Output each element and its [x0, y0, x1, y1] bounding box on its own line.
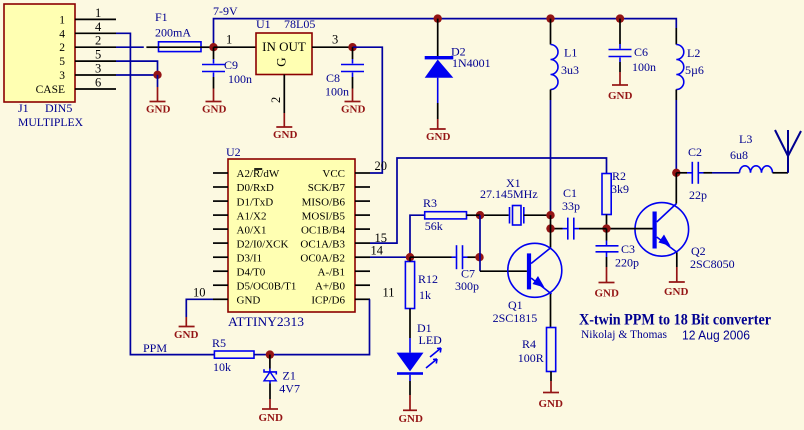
svg-text:A-/B1: A-/B1 — [318, 266, 346, 278]
svg-text:U2: U2 — [226, 145, 241, 159]
svg-text:GND: GND — [174, 329, 199, 341]
ground C8 — [341, 89, 366, 116]
junction C6 on rail — [616, 14, 624, 22]
crystal X1 — [480, 176, 551, 225]
svg-text:MULTIPLEX: MULTIPLEX — [18, 115, 83, 129]
ground R4 — [539, 381, 564, 410]
svg-text:22p: 22p — [689, 188, 707, 202]
svg-text:IN OUT: IN OUT — [262, 39, 306, 54]
svg-text:ICP/D6: ICP/D6 — [311, 295, 345, 307]
wire collector node down to Q1 — [550, 215, 552, 247]
wire L1 to X1 node — [550, 100, 552, 215]
regulator U1 78L05 — [256, 17, 315, 75]
wire fuse to junction — [201, 46, 214, 48]
diode D2 1N4001 — [425, 19, 491, 119]
svg-text:D0/RxD: D0/RxD — [237, 182, 274, 194]
svg-text:OC1B/B4: OC1B/B4 — [301, 224, 346, 236]
svg-text:ATTINY2313: ATTINY2313 — [228, 314, 304, 329]
U2 left pin names — [237, 168, 297, 306]
U1 pin2 wire down — [283, 75, 285, 114]
ground Q2 emitter — [664, 267, 689, 298]
junction X1 right / Q1 collector — [546, 211, 554, 219]
svg-text:R3: R3 — [423, 196, 437, 210]
svg-text:7-9V: 7-9V — [213, 4, 238, 18]
wire L2 down to C2/Q2 node — [675, 100, 677, 173]
svg-text:R4: R4 — [522, 337, 536, 351]
svg-text:GND: GND — [608, 90, 633, 102]
svg-text:C2: C2 — [688, 145, 702, 159]
node 7-9V rail — [214, 19, 677, 48]
svg-text:300p: 300p — [455, 279, 479, 293]
svg-text:F1: F1 — [155, 10, 168, 24]
svg-text:MISO/B6: MISO/B6 — [302, 196, 346, 208]
svg-text:SCK/B7: SCK/B7 — [308, 182, 346, 194]
capacitor C7 — [410, 245, 480, 293]
svg-text:Nikolaj & Thomas: Nikolaj & Thomas — [581, 327, 667, 341]
chip U2 ATTINY2313 — [226, 145, 355, 329]
U2 right pin names — [300, 168, 345, 306]
svg-text:C9: C9 — [224, 58, 238, 72]
LED D1 — [397, 321, 443, 395]
transistor Q2 2SC8050 — [607, 173, 735, 271]
node pin15 to R2 — [370, 158, 607, 243]
capacitor C1 — [551, 186, 607, 240]
svg-text:100n: 100n — [228, 72, 252, 86]
ground C3 — [595, 267, 620, 300]
ground C6 — [608, 72, 633, 102]
svg-text:GND: GND — [273, 129, 298, 141]
svg-text:3: 3 — [332, 33, 338, 47]
wire segment to fuse F1 — [146, 46, 158, 48]
inductor L1 — [551, 19, 580, 100]
ground D1 — [399, 395, 424, 425]
svg-text:200mA: 200mA — [155, 26, 191, 40]
svg-text:A+/B0: A+/B0 — [315, 280, 346, 292]
ground Z1 — [259, 399, 284, 424]
wire C7 node up to X1 node and down to Q1 base — [479, 215, 481, 271]
svg-text:C1: C1 — [563, 186, 577, 200]
svg-text:GND: GND — [426, 131, 451, 143]
svg-text:OC1A/B3: OC1A/B3 — [300, 238, 345, 250]
ground D2 — [426, 119, 451, 143]
svg-text:1: 1 — [95, 6, 101, 20]
svg-text:5: 5 — [95, 48, 101, 62]
svg-text:C8: C8 — [326, 71, 340, 85]
resistor R2 — [602, 169, 629, 229]
svg-text:MOSI/B5: MOSI/B5 — [302, 210, 346, 222]
ground C9 — [202, 89, 227, 116]
svg-text:4: 4 — [59, 28, 65, 40]
svg-text:D5/OC0B/T1: D5/OC0B/T1 — [237, 280, 297, 292]
capacitor C8 — [325, 47, 364, 98]
junction J1 gnd — [153, 71, 161, 79]
svg-text:A0/X1: A0/X1 — [237, 224, 267, 236]
svg-text:VCC: VCC — [322, 168, 345, 180]
node +5V to U2 VCC — [353, 47, 383, 173]
svg-text:PPM: PPM — [143, 341, 167, 355]
svg-text:GND: GND — [539, 398, 564, 410]
junction U1 out / C8 — [348, 43, 356, 51]
svg-text:100n: 100n — [325, 85, 349, 99]
wire C2 to L3 — [712, 172, 740, 174]
svg-text:Q2: Q2 — [691, 244, 706, 258]
transistor Q1 2SC1815 — [493, 243, 562, 327]
resistor R4 — [518, 328, 556, 382]
svg-text:1N4001: 1N4001 — [452, 56, 491, 70]
svg-text:GND: GND — [202, 104, 227, 116]
resistor R12 — [405, 257, 438, 352]
wire L3 to antenna — [773, 172, 789, 174]
svg-text:G: G — [274, 57, 289, 66]
ground U2 pin10 — [174, 317, 199, 341]
svg-text:27.145MHz: 27.145MHz — [480, 187, 538, 201]
ground U1 — [273, 113, 298, 141]
resistor R3 — [410, 196, 480, 257]
node pin11 to PPM — [270, 299, 370, 354]
wire J1 pin2 toward fuse — [116, 46, 144, 48]
J1 pin numbers — [95, 6, 102, 90]
svg-text:R12: R12 — [418, 272, 438, 286]
inductor L2 — [676, 28, 704, 100]
junction X1 left — [476, 211, 484, 219]
J1 pin stubs — [75, 19, 116, 89]
capacitor C9 — [202, 47, 252, 88]
connector J1 — [4, 4, 75, 102]
node PPM : wire from J1 pin4 down and across — [116, 33, 214, 354]
junction R3/R12/C7 — [406, 253, 414, 261]
junction R5/Z1 — [266, 350, 274, 358]
svg-text:3u3: 3u3 — [561, 63, 579, 77]
svg-text:D2/I0/XCK: D2/I0/XCK — [237, 238, 289, 250]
ground J1 — [146, 75, 171, 116]
wire junction to U1 — [214, 46, 257, 48]
capacitor C6 — [609, 19, 657, 74]
svg-text:2SC8050: 2SC8050 — [690, 257, 735, 271]
junction L1 on rail — [546, 14, 554, 22]
svg-text:C3: C3 — [621, 242, 635, 256]
svg-text:X-twin PPM to 18 Bit converter: X-twin PPM to 18 Bit converter — [579, 312, 771, 329]
U2 left pin stubs — [213, 173, 228, 299]
svg-text:CASE: CASE — [36, 84, 65, 96]
svg-text:100R: 100R — [518, 351, 544, 365]
svg-text:6: 6 — [95, 76, 101, 90]
svg-text:U1: U1 — [256, 17, 271, 31]
antenna — [775, 130, 801, 173]
svg-text:2: 2 — [59, 42, 65, 54]
svg-text:GND: GND — [664, 286, 689, 298]
svg-text:3: 3 — [95, 62, 101, 76]
svg-text:14: 14 — [371, 244, 384, 258]
svg-text:GND: GND — [341, 104, 366, 116]
svg-text:GND: GND — [146, 104, 171, 116]
zener Z1 — [264, 355, 300, 399]
node pin14 wire — [370, 256, 410, 258]
svg-text:J1: J1 — [18, 101, 29, 115]
svg-text:2: 2 — [269, 97, 283, 103]
svg-text:4V7: 4V7 — [279, 382, 300, 396]
svg-text:D3/I1: D3/I1 — [237, 252, 263, 264]
svg-text:L2: L2 — [687, 46, 700, 60]
svg-text:4: 4 — [95, 20, 102, 34]
svg-text:5µ6: 5µ6 — [685, 63, 704, 77]
svg-text:6u8: 6u8 — [730, 148, 748, 162]
svg-text:GND: GND — [259, 412, 284, 424]
overline on R of A2/R/dW — [254, 168, 262, 170]
junction at F1/C9/U1 — [209, 43, 217, 51]
svg-text:3k9: 3k9 — [611, 182, 629, 196]
svg-text:1: 1 — [226, 33, 232, 47]
svg-text:220p: 220p — [615, 256, 639, 270]
svg-text:2SC1815: 2SC1815 — [493, 311, 538, 325]
junction C2/Q2 collector — [672, 169, 680, 177]
U1 pin3 wire — [312, 46, 353, 48]
junction C1 tap on collector — [546, 224, 554, 232]
resistor R5 — [212, 336, 270, 374]
svg-text:11: 11 — [383, 286, 395, 300]
svg-text:10k: 10k — [213, 360, 231, 374]
svg-text:33p: 33p — [562, 199, 580, 213]
svg-text:1k: 1k — [419, 288, 431, 302]
svg-text:A1/X2: A1/X2 — [237, 210, 267, 222]
capacitor C2 — [676, 145, 712, 202]
svg-text:R2: R2 — [612, 169, 626, 183]
svg-text:C6: C6 — [634, 45, 648, 59]
junction D2 on rail — [434, 14, 442, 22]
wire J1 pin5 to gnd junction — [116, 61, 158, 75]
svg-text:L1: L1 — [564, 46, 577, 60]
svg-text:100n: 100n — [632, 60, 656, 74]
svg-text:10: 10 — [193, 286, 206, 300]
svg-text:Z1: Z1 — [283, 369, 296, 383]
junction C7 right — [475, 253, 483, 261]
svg-text:LED: LED — [419, 333, 443, 347]
svg-text:L3: L3 — [739, 132, 752, 146]
svg-text:2: 2 — [95, 34, 101, 48]
svg-text:5: 5 — [59, 56, 65, 68]
svg-text:78L05: 78L05 — [284, 17, 315, 31]
svg-text:12 Aug 2006: 12 Aug 2006 — [682, 329, 750, 343]
svg-text:56k: 56k — [425, 219, 443, 233]
svg-text:A2/R/dW: A2/R/dW — [237, 168, 280, 180]
U2 right pin stubs — [355, 173, 370, 299]
node pin10 GND wire — [186, 299, 213, 317]
svg-text:GND: GND — [595, 288, 620, 300]
U2 pin numbers — [193, 159, 395, 300]
svg-text:GND: GND — [237, 295, 261, 307]
svg-text:GND: GND — [399, 413, 424, 425]
wire J1 pin3 to gnd junction — [116, 74, 158, 76]
svg-text:R5: R5 — [212, 336, 226, 350]
svg-text:Q1: Q1 — [508, 298, 523, 312]
svg-text:3: 3 — [59, 70, 65, 82]
svg-text:D1/TxD: D1/TxD — [237, 196, 274, 208]
svg-text:OC0A/B2: OC0A/B2 — [300, 252, 345, 264]
svg-text:D4/T0: D4/T0 — [237, 266, 266, 278]
fuse F1 — [155, 10, 201, 52]
svg-text:1: 1 — [59, 14, 65, 26]
capacitor C3 — [596, 229, 640, 270]
svg-text:20: 20 — [375, 159, 388, 173]
junction R2/C1/C3/Q2 base — [602, 224, 610, 232]
svg-text:DIN5: DIN5 — [45, 101, 72, 115]
inductor L3 — [730, 132, 773, 173]
